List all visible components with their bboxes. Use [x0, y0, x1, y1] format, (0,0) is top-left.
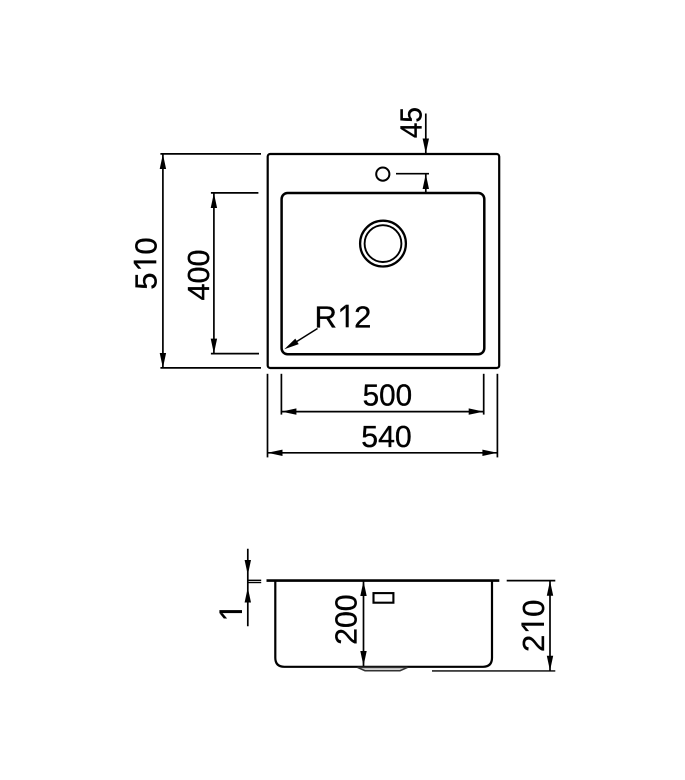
dimension 1 text — [219, 610, 242, 618]
label R12 — [315, 299, 372, 334]
dimension 540 line — [268, 452, 498, 454]
drain outer circle — [360, 221, 406, 267]
dimension 200 up arrow — [360, 581, 366, 596]
dimension 45 down arrow — [423, 139, 429, 154]
extension line right (540) — [496, 374, 498, 458]
dimension 45 up arrow — [423, 174, 429, 189]
dimension 210 line — [549, 581, 551, 671]
drain inner circle — [365, 225, 402, 262]
extension line right (500) — [483, 374, 485, 415]
svg-text:2: 2 — [516, 635, 551, 652]
dimension 500 left arrow — [281, 408, 296, 414]
dimension 200 line — [363, 581, 365, 666]
rim sheet top edge line (left) — [248, 579, 261, 581]
dimension 400 down arrow — [211, 339, 217, 354]
dimension 540 left arrow — [268, 450, 283, 456]
dimension 200 down arrow — [360, 651, 366, 666]
extension line top (400) — [211, 192, 259, 194]
dimension 540 right arrow — [482, 450, 497, 456]
dimension 45 lower line — [425, 174, 427, 193]
extension line left (540) — [267, 374, 269, 458]
dimension 500 line — [281, 411, 483, 413]
dimension 210 up arrow — [547, 581, 553, 596]
svg-text:0: 0 — [516, 600, 551, 617]
svg-text:2: 2 — [354, 299, 371, 334]
sink bowl inner outline (top view) — [282, 193, 485, 354]
svg-text:400: 400 — [181, 250, 216, 301]
leader arrowhead R12 — [284, 339, 298, 350]
dimension 510 down arrow — [160, 353, 166, 368]
svg-text:540: 540 — [361, 419, 412, 454]
dimension 45 upper line — [425, 114, 427, 154]
svg-text:45: 45 — [394, 107, 429, 138]
faucet hole — [376, 168, 389, 181]
extension line left (500) — [280, 374, 282, 415]
svg-text:200: 200 — [329, 594, 364, 645]
dimension 400 line — [213, 193, 215, 354]
dimension 400 up arrow — [211, 193, 217, 208]
faucet hole leader line — [396, 173, 429, 175]
drain bottom level line — [432, 670, 555, 672]
svg-text:0: 0 — [128, 237, 163, 254]
dimension 510 up arrow — [160, 154, 166, 169]
dimension 210 down arrow — [547, 656, 553, 671]
dimension 510 text — [128, 237, 163, 289]
svg-text:R: R — [315, 299, 337, 334]
extension line top (210) — [507, 580, 556, 582]
drain recess (side view) — [358, 667, 408, 670]
dimension 1 upper line — [247, 549, 249, 627]
leader line R12 — [288, 329, 318, 348]
rim sheet bottom edge line (left) — [248, 582, 261, 584]
dimension 210 text — [516, 600, 551, 652]
extension line bottom (400) — [211, 353, 259, 355]
dimension 500 right arrow — [469, 408, 484, 414]
svg-text:500: 500 — [363, 377, 413, 412]
bowl walls and bottom (side view) — [275, 582, 492, 667]
dimension 1 down arrow — [245, 560, 251, 575]
dimension 510 line — [162, 154, 164, 368]
overflow opening (side view) — [374, 593, 394, 603]
extension line top (510) — [160, 153, 261, 155]
svg-text:5: 5 — [128, 272, 163, 289]
dimension 1 up arrow — [245, 588, 251, 603]
extension line bottom (510) — [160, 367, 261, 369]
sink outer rim outline (top view) — [268, 154, 500, 368]
rim top surface line (side view) — [267, 579, 500, 582]
